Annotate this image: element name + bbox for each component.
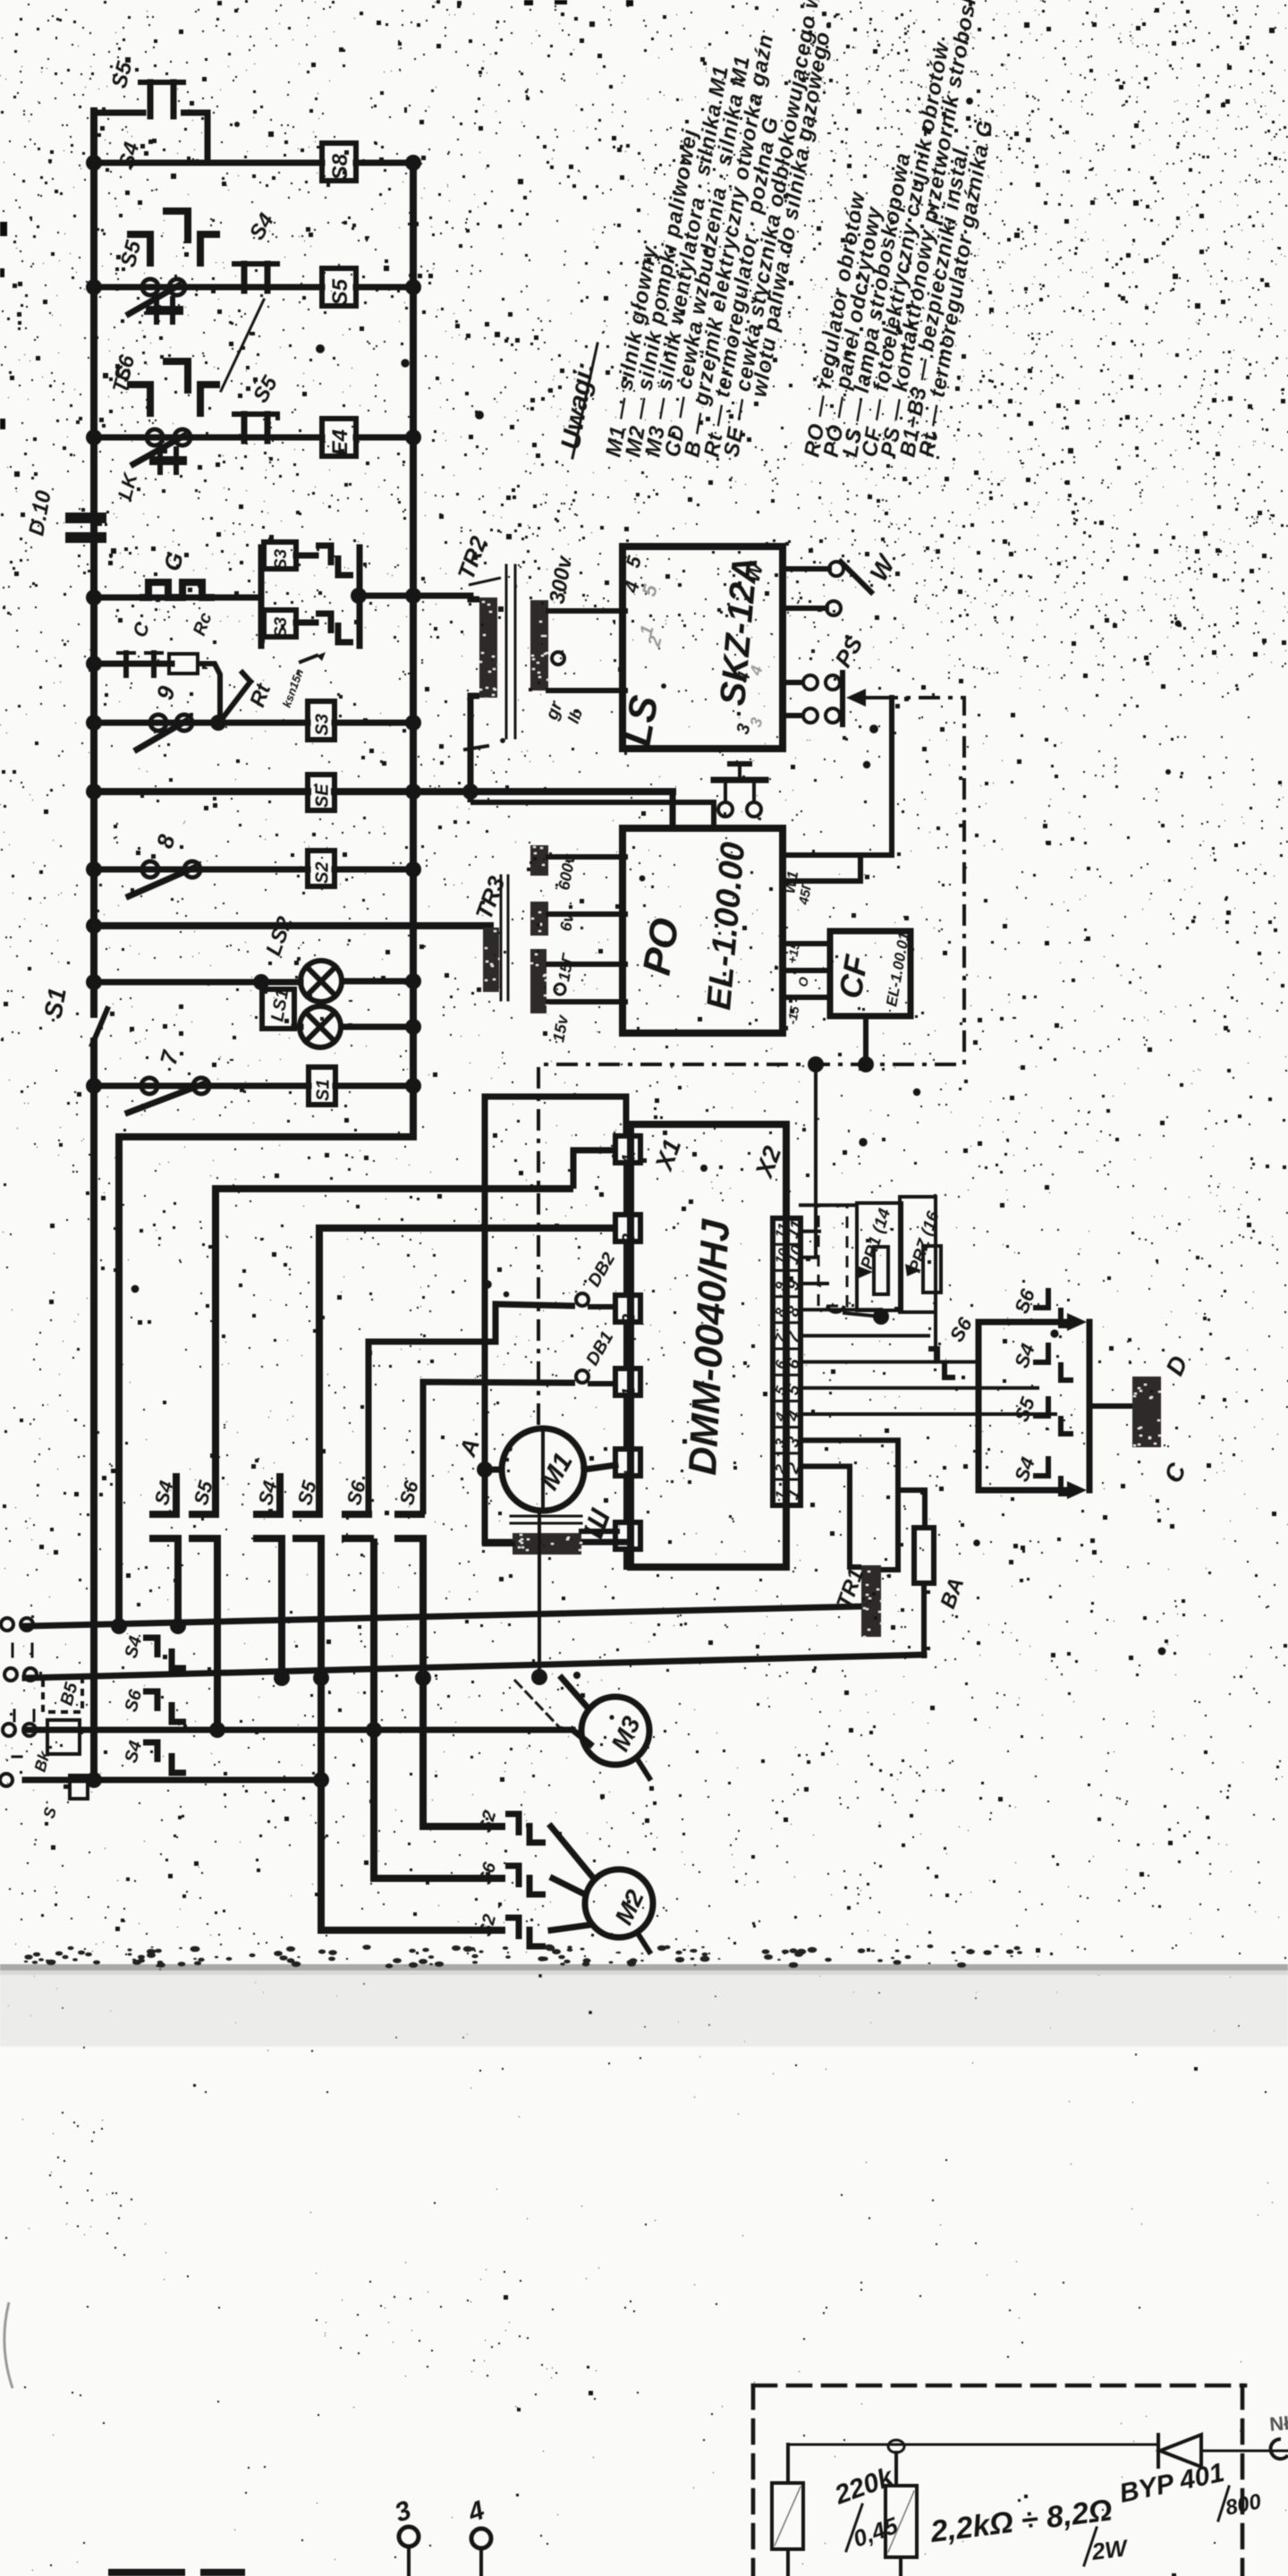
svg-text:S1: S1 (314, 1080, 334, 1101)
svg-text:LS: LS (615, 692, 667, 750)
svg-text:S3: S3 (313, 714, 333, 735)
svg-text:S1: S1 (38, 986, 71, 1021)
svg-text:S3: S3 (272, 548, 291, 570)
svg-text:SE: SE (313, 784, 333, 808)
svg-text:S2: S2 (313, 862, 333, 884)
svg-text:2W: 2W (1089, 2534, 1131, 2565)
svg-text:NŁ: NŁ (1268, 2411, 1288, 2436)
svg-text:S8: S8 (328, 153, 352, 180)
svg-text:S5: S5 (328, 278, 352, 305)
svg-text:CF: CF (832, 952, 876, 1001)
